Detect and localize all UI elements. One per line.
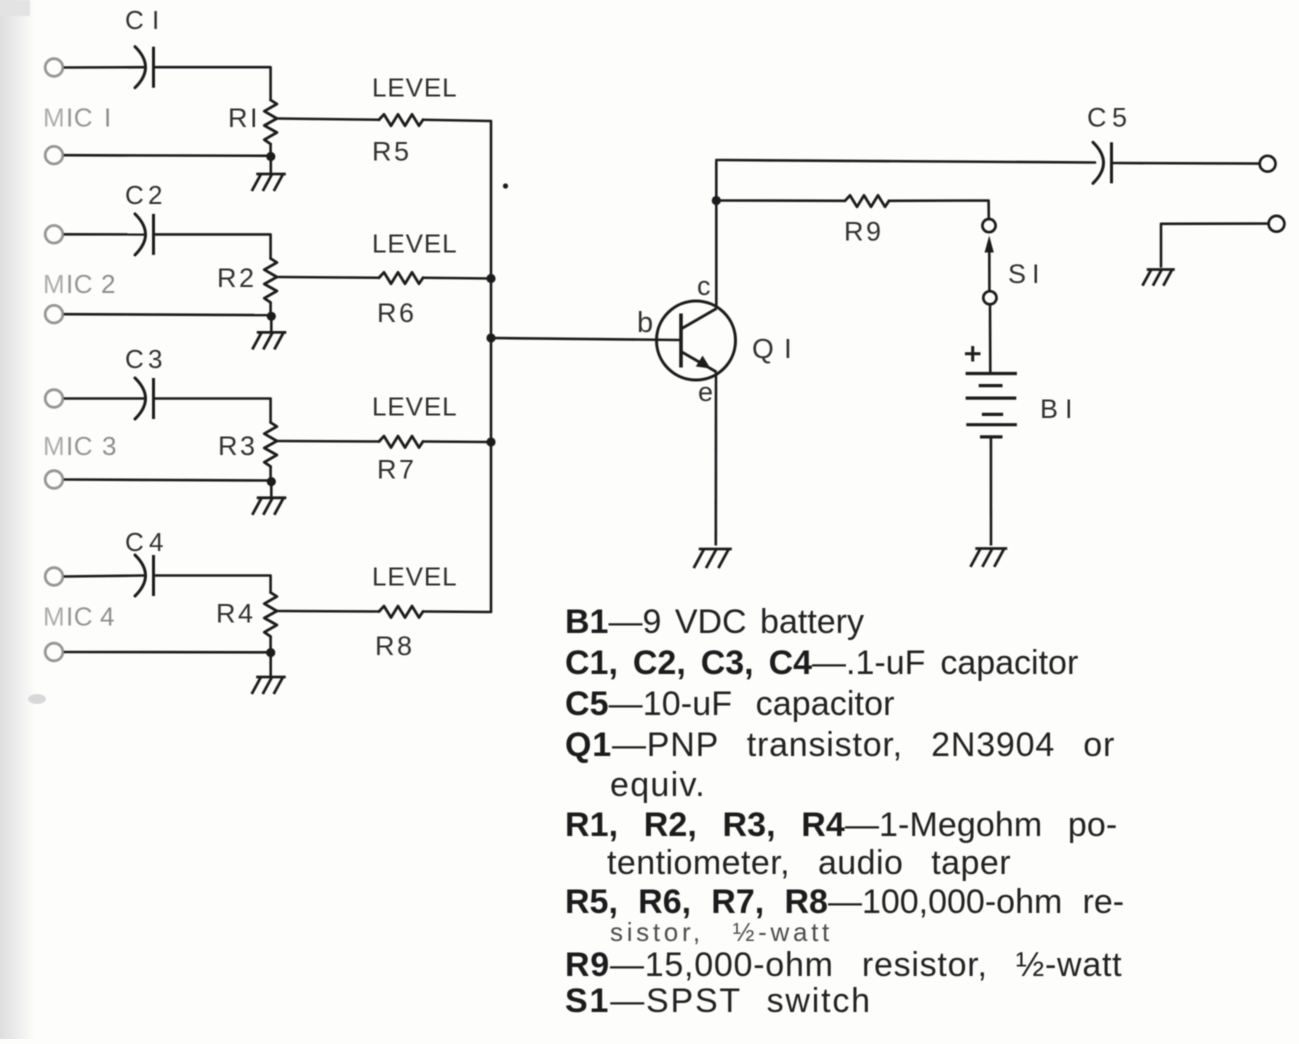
svg-text:R9—15,000-ohm resistor, ½-watt: R9—15,000-ohm resistor, ½-watt	[565, 946, 1122, 984]
svg-text:LEVEL: LEVEL	[372, 562, 457, 592]
svg-text:M: M	[43, 602, 65, 632]
svg-text:M: M	[43, 269, 65, 299]
svg-text:I: I	[250, 103, 258, 133]
svg-text:C: C	[125, 5, 144, 35]
svg-text:B: B	[1040, 394, 1058, 424]
svg-text:Q: Q	[752, 333, 774, 364]
svg-text:C: C	[125, 527, 144, 557]
svg-text:R: R	[372, 137, 392, 167]
svg-text:R: R	[217, 263, 237, 293]
svg-text:8: 8	[397, 631, 412, 661]
svg-text:c: c	[697, 271, 711, 301]
svg-text:e: e	[698, 377, 713, 407]
svg-text:b: b	[637, 307, 653, 339]
svg-text:I: I	[104, 103, 111, 133]
svg-text:R: R	[844, 217, 864, 247]
svg-text:R: R	[375, 631, 395, 661]
svg-text:R: R	[228, 103, 248, 133]
svg-text:5: 5	[1112, 103, 1127, 133]
svg-text:M: M	[43, 431, 65, 461]
svg-text:R: R	[218, 431, 238, 461]
svg-text:C: C	[125, 180, 144, 210]
svg-text:C: C	[1087, 103, 1107, 133]
svg-text:IC: IC	[66, 431, 93, 461]
svg-text:S1—SPST switch: S1—SPST switch	[565, 982, 872, 1020]
svg-text:R: R	[377, 455, 397, 485]
svg-text:sistor, ½-watt: sistor, ½-watt	[610, 917, 833, 947]
svg-text:M: M	[43, 103, 65, 133]
svg-text:C: C	[125, 344, 144, 374]
svg-text:2: 2	[101, 269, 115, 299]
svg-text:Q1—PNP transistor, 2N3904 or: Q1—PNP transistor, 2N3904 or	[565, 726, 1115, 764]
svg-text:C5—10-uF capacitor: C5—10-uF capacitor	[565, 685, 895, 723]
svg-text:tentiometer, audio taper: tentiometer, audio taper	[607, 844, 1011, 882]
svg-text:4: 4	[238, 599, 253, 629]
svg-text:LEVEL: LEVEL	[372, 73, 457, 103]
svg-text:R: R	[216, 599, 236, 629]
svg-text:6: 6	[399, 298, 414, 328]
svg-text:3: 3	[102, 431, 116, 461]
svg-text:C1, C2, C3, C4—.1-uF capacitor: C1, C2, C3, C4—.1-uF capacitor	[565, 644, 1078, 682]
svg-text:B1—9 VDC battery: B1—9 VDC battery	[565, 603, 864, 641]
svg-text:7: 7	[399, 455, 414, 485]
svg-text:I: I	[152, 5, 159, 35]
svg-text:3: 3	[148, 344, 162, 374]
svg-text:5: 5	[394, 137, 409, 167]
svg-text:R: R	[377, 298, 397, 328]
svg-text:IC: IC	[66, 269, 93, 299]
svg-text:R1, R2, R3, R4—1-Megohm po-: R1, R2, R3, R4—1-Megohm po-	[565, 806, 1117, 844]
svg-text:LEVEL: LEVEL	[372, 392, 457, 422]
svg-text:S: S	[1008, 259, 1026, 289]
svg-text:I: I	[1032, 259, 1040, 289]
svg-text:2: 2	[148, 180, 162, 210]
svg-text:IC: IC	[66, 602, 93, 632]
svg-text:equiv.: equiv.	[610, 766, 706, 804]
svg-text:LEVEL: LEVEL	[372, 229, 457, 259]
svg-text:R5, R6, R7, R8—100,000-ohm re-: R5, R6, R7, R8—100,000-ohm re-	[565, 883, 1124, 921]
svg-text:I: I	[784, 333, 792, 364]
svg-text:2: 2	[239, 263, 254, 293]
svg-text:4: 4	[149, 527, 163, 557]
svg-text:I: I	[1065, 394, 1073, 424]
svg-text:3: 3	[240, 431, 255, 461]
svg-text:IC: IC	[66, 103, 93, 133]
svg-text:9: 9	[866, 217, 881, 247]
svg-text:4: 4	[100, 602, 114, 632]
